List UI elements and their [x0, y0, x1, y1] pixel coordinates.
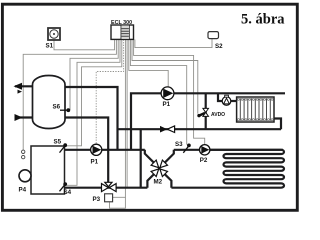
wire ECL to sensor S2 [135, 39, 212, 48]
pipe M2 port upper-left [145, 150, 154, 163]
wire ECL to pump P1 dhw (dashed) [96, 40, 123, 145]
thermostatic radiator valve [222, 95, 231, 105]
wire ECL to S1 [54, 40, 115, 50]
pipe cold water inlet left of tank [15, 116, 33, 118]
pipes (thick) [15, 86, 285, 187]
pipe tank top to down riser [64, 87, 118, 150]
pump P2 floor circuit [200, 145, 210, 155]
arrow cold water inlet [15, 114, 23, 121]
svg-text:S5: S5 [54, 139, 62, 146]
AVDO bypass valve [197, 108, 208, 117]
arrow small tap symbol [18, 90, 23, 94]
svg-text:P1: P1 [163, 101, 171, 108]
svg-text:S1: S1 [46, 43, 54, 50]
pipe branch to radiator valve [218, 93, 222, 101]
pipe radiator valve to radiator [231, 100, 237, 102]
svg-text:S3: S3 [175, 141, 183, 148]
wire ECL to boiler terminals [23, 40, 116, 151]
outdoor sensor S1 [48, 28, 60, 40]
arrow dhw outlet [14, 83, 23, 90]
pipe M2 to mixing circuit [174, 149, 283, 151]
pipe radiator outlet stub [274, 119, 281, 130]
wire ECL to pump P2 [134, 40, 205, 145]
boiler terminal lower [22, 155, 25, 158]
wire ECL to valve P3 actuator [113, 40, 126, 198]
sensor S3 on mixing flow [183, 144, 191, 153]
wire ECL to valve M2 [126, 40, 128, 188]
wire ECL to sensor S4 [67, 40, 121, 186]
room sensor S2 [208, 32, 219, 39]
pump P1 dhw circuit [91, 144, 102, 155]
pipe M2 port lower-left [147, 174, 154, 188]
wire loop at P3 actuator [110, 197, 126, 208]
pump P1 radiator circuit [161, 87, 174, 100]
pipe AVDO bypass riser [205, 93, 207, 129]
wire ECL to sensor S5 [66, 40, 122, 146]
svg-text:S2: S2 [215, 43, 223, 50]
pipe radiator return [118, 128, 282, 130]
svg-text:5. ábra: 5. ábra [241, 11, 285, 27]
svg-text:ECL 300: ECL 300 [111, 20, 132, 26]
pipe dhw outlet left of tank [15, 85, 33, 87]
svg-text:P3: P3 [93, 196, 101, 203]
figure border frame [2, 4, 297, 210]
sensor S4 on boiler return [60, 182, 68, 191]
pipe tank bottom to P3 riser [64, 118, 108, 150]
controller ECL 300 [111, 25, 134, 39]
svg-text:P4: P4 [19, 187, 27, 194]
pipe floor heating serpentine [171, 150, 284, 188]
svg-text:AVDO: AVDO [211, 112, 225, 118]
wire ECL to pump P1 radiator [129, 40, 168, 88]
sensor S5 on boiler flow [60, 143, 68, 152]
pipe boiler return [65, 187, 148, 189]
svg-text:M2: M2 [154, 178, 163, 185]
dhw tank [33, 76, 66, 129]
check valve on radiator return [160, 126, 175, 133]
svg-text:P1: P1 [91, 159, 99, 166]
pipe radiator supply main [131, 93, 285, 150]
pipe boiler supply to M2 [65, 149, 145, 151]
pipe M2 port lower-right [165, 174, 172, 188]
svg-text:S4: S4 [64, 189, 72, 196]
sensor S6 on tank [60, 108, 70, 112]
wire ECL to AVDO valve [132, 40, 198, 114]
wire ECL to sensor S6 [70, 40, 118, 111]
wire ECL to sensor S3 [130, 40, 186, 145]
boiler [31, 146, 65, 194]
svg-text:S6: S6 [53, 103, 61, 110]
pipe M2 port upper-right [165, 150, 174, 163]
motorized valve P3 [102, 182, 117, 202]
radiator [237, 97, 274, 122]
motorized mixing valve M2 [151, 160, 167, 176]
pipe P3 riser lower [107, 150, 109, 183]
pump P4 circle [19, 170, 31, 182]
svg-text:P2: P2 [200, 157, 208, 164]
boiler terminal upper [22, 150, 25, 153]
pipe bypass riser at M2 [140, 129, 142, 188]
